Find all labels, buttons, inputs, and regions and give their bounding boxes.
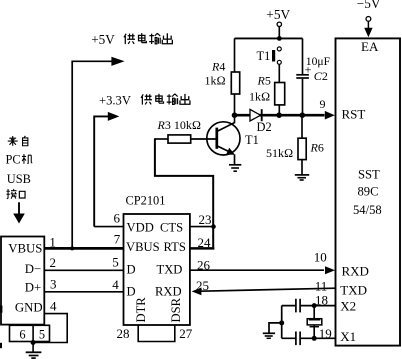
svg-text:DTR: DTR xyxy=(134,297,148,323)
svg-text:D: D xyxy=(127,262,136,276)
svg-text:27: 27 xyxy=(179,326,193,341)
wire DTR-DSR loop xyxy=(138,325,175,342)
svg-text:PC: PC xyxy=(6,153,21,167)
wire X2 xyxy=(282,305,336,307)
scan artifact left edge low xyxy=(0,343,2,348)
USB shield 6|5 xyxy=(10,325,50,341)
svg-text:X2: X2 xyxy=(340,298,356,313)
svg-text:7: 7 xyxy=(114,231,121,246)
svg-text:VDD: VDD xyxy=(127,221,154,235)
svg-text:54/58: 54/58 xyxy=(353,203,382,217)
svg-text:CTS: CTS xyxy=(160,221,183,235)
svg-text:6: 6 xyxy=(114,211,121,226)
svg-text:2: 2 xyxy=(50,255,57,270)
label +5V 供电输出 xyxy=(91,32,172,47)
svg-text:RXD: RXD xyxy=(342,263,369,278)
svg-text:VBUS: VBUS xyxy=(8,242,42,256)
node R5 bottom xyxy=(276,112,282,118)
svg-text:1: 1 xyxy=(49,234,56,249)
ground crystal xyxy=(263,333,275,338)
svg-text:EA: EA xyxy=(361,39,379,54)
node VBUS/+5V xyxy=(70,246,74,250)
svg-text:+3.3V: +3.3V xyxy=(99,93,131,107)
wire GND pin4 xyxy=(33,314,67,343)
svg-text:RTS: RTS xyxy=(164,240,186,254)
svg-text:1kΩ: 1kΩ xyxy=(205,73,226,87)
ground USB xyxy=(26,343,42,359)
wire +5V output arrow xyxy=(72,57,124,249)
svg-text:R5: R5 xyxy=(257,74,271,88)
svg-text:TXD: TXD xyxy=(157,262,183,276)
svg-text:CP2101: CP2101 xyxy=(126,193,166,207)
capacitor X1 xyxy=(296,332,300,346)
capacitor C2 xyxy=(296,38,330,115)
svg-text:89C: 89C xyxy=(358,185,379,199)
power terminal +5V xyxy=(266,7,290,38)
node CTS/RTS xyxy=(211,224,216,229)
node ground link xyxy=(279,320,284,325)
svg-text:R3 10kΩ: R3 10kΩ xyxy=(157,118,202,132)
svg-text:D−: D− xyxy=(25,262,41,276)
svg-text:18: 18 xyxy=(315,292,328,307)
svg-text:D2: D2 xyxy=(257,120,272,134)
ground R6 xyxy=(295,175,309,180)
switch T1 (reset button) xyxy=(257,47,282,83)
svg-text:4: 4 xyxy=(112,277,119,292)
transistor T1 xyxy=(207,115,259,164)
svg-text:−5V: −5V xyxy=(357,0,381,11)
svg-text:10: 10 xyxy=(314,249,327,264)
svg-text:+: + xyxy=(305,62,312,76)
resistor R4 xyxy=(205,38,240,115)
ground emitter xyxy=(229,165,241,171)
svg-text:1kΩ: 1kΩ xyxy=(249,89,270,103)
svg-text:T1: T1 xyxy=(257,49,271,63)
wire top rail xyxy=(235,37,303,39)
node X1/crystal xyxy=(312,336,317,341)
svg-text:R4: R4 xyxy=(211,59,225,73)
svg-text:RXD: RXD xyxy=(155,284,182,298)
svg-text:RST: RST xyxy=(342,106,366,121)
svg-text:24: 24 xyxy=(198,235,212,250)
resistor R6 xyxy=(266,115,324,174)
svg-text:DSR: DSR xyxy=(169,297,183,322)
node top rail / switch xyxy=(277,36,282,41)
node X2/crystal xyxy=(312,303,317,308)
IC SST89C54/58 xyxy=(336,38,401,345)
svg-text:23: 23 xyxy=(199,212,212,227)
svg-text:4: 4 xyxy=(50,298,57,313)
svg-text:28: 28 xyxy=(117,326,130,341)
USB connector xyxy=(1,237,44,325)
svg-text:VBUS: VBUS xyxy=(126,240,160,254)
wire +3.3V output arrow xyxy=(94,112,119,227)
svg-text:T1: T1 xyxy=(245,133,259,147)
svg-text:19: 19 xyxy=(319,326,332,341)
svg-text:D+: D+ xyxy=(25,281,41,295)
svg-text:GND: GND xyxy=(15,300,43,314)
resistor R5 xyxy=(249,74,285,116)
svg-text:9: 9 xyxy=(320,97,326,111)
wire RXD from TXD xyxy=(192,288,336,296)
svg-text:+5V: +5V xyxy=(266,7,290,22)
svg-text:3: 3 xyxy=(50,276,57,291)
svg-text:SST: SST xyxy=(358,168,380,182)
wire to crystal ground xyxy=(269,323,282,333)
wire VBUS (pin1 to pin7) xyxy=(44,247,123,250)
svg-text:5: 5 xyxy=(112,255,119,270)
wire crystal ground link xyxy=(281,306,283,339)
wire VDD pin6 xyxy=(94,226,123,228)
wire RST line xyxy=(235,114,325,117)
label +3.3V 供电输出 xyxy=(99,93,190,107)
svg-text:+5V: +5V xyxy=(91,32,115,47)
svg-text:USB: USB xyxy=(7,172,31,186)
RST arrowhead into pin 9 xyxy=(325,111,335,120)
svg-text:51kΩ: 51kΩ xyxy=(266,146,293,160)
wire USB entry arrow xyxy=(13,202,25,223)
wire TXD to RXD xyxy=(190,266,335,274)
svg-text:6: 6 xyxy=(19,328,25,342)
node C2/R6 xyxy=(300,112,306,118)
wire R3 to RTS xyxy=(155,138,213,247)
resistor R3 xyxy=(155,118,216,143)
svg-text:C2: C2 xyxy=(314,69,328,83)
wire CTS stub xyxy=(190,226,214,228)
wire X1 xyxy=(282,337,336,339)
wire RTS stub xyxy=(190,247,214,250)
node shield ground xyxy=(31,340,36,345)
wire D- xyxy=(44,269,123,271)
svg-text:X1: X1 xyxy=(340,329,356,344)
node R4/collector xyxy=(232,112,238,118)
label 来自 PC机 USB 接口 xyxy=(6,136,33,199)
svg-text:R6: R6 xyxy=(310,141,324,155)
crystal xyxy=(307,306,322,339)
capacitor X2 xyxy=(296,299,300,313)
svg-text:11: 11 xyxy=(315,278,328,293)
svg-text:5: 5 xyxy=(39,328,45,342)
wire D+ xyxy=(44,291,123,293)
svg-text:TXD: TXD xyxy=(340,282,367,297)
diode D2 xyxy=(250,109,272,134)
IC CP2101 xyxy=(124,193,190,325)
svg-text:D: D xyxy=(127,284,136,298)
power terminal -5V xyxy=(357,0,381,37)
scan artifact left edge xyxy=(0,306,2,313)
